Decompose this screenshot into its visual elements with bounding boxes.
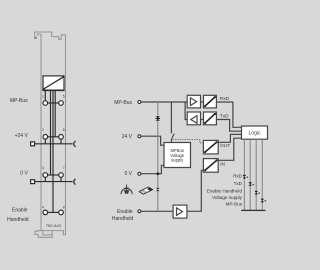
- Logic box: [242, 126, 268, 139]
- wire OUT to Logic: [218, 134, 241, 142]
- terminal 5: [59, 101, 64, 106]
- data contact symbol TxD: [248, 182, 254, 186]
- bus bar MP-Bus: [259, 209, 265, 211]
- handheld socket symbol: [121, 185, 133, 194]
- svg-text:MP-Bus: MP-Bus: [114, 100, 132, 106]
- svg-text:0 V: 0 V: [124, 171, 132, 177]
- 24V wire: [141, 136, 164, 145]
- svg-text:supply: supply: [171, 158, 184, 163]
- opto-isolator RxD: [204, 95, 217, 108]
- internal bus wire a: [50, 90, 52, 175]
- internal bus wire c: [54, 90, 56, 137]
- svg-text:Handheld: Handheld: [112, 216, 134, 222]
- terminal 6 stub: [60, 139, 62, 144]
- zener branch wire upper: [157, 102, 159, 116]
- svg-text:Enable Handheld: Enable Handheld: [207, 188, 243, 193]
- module bottom notch: [43, 231, 52, 235]
- relay contact K1: [171, 134, 174, 140]
- svg-text:MP-Bus: MP-Bus: [10, 98, 28, 104]
- wire IN to Logic: [218, 138, 241, 160]
- svg-text:Voltage supply: Voltage supply: [212, 195, 243, 200]
- bus bar Enable/Voltage: [253, 209, 259, 211]
- Enable wire: [141, 210, 173, 212]
- opto-isolator OUT: [203, 140, 218, 154]
- +24V clamp arc: [74, 141, 76, 147]
- relay branch wire: [170, 102, 172, 133]
- terminal 3 stub: [44, 177, 46, 181]
- 0V clamp arc: [74, 179, 76, 185]
- terminal 1: [43, 101, 48, 106]
- svg-text:1: 1: [42, 95, 44, 99]
- svg-text:TxD: TxD: [220, 114, 229, 120]
- svg-text:4: 4: [42, 206, 44, 210]
- handheld plug wire lower: [157, 192, 159, 211]
- module bottom foot: [35, 231, 52, 238]
- svg-text:8: 8: [63, 206, 65, 210]
- buffer U2 (RxD driver): [187, 95, 200, 108]
- svg-text:Enable: Enable: [117, 209, 133, 215]
- suppressor diode Z1: [156, 116, 161, 121]
- svg-text:RxD: RxD: [233, 174, 243, 179]
- wire opto RxD to Logic: [216, 102, 241, 127]
- +24V row wire: [35, 143, 73, 145]
- module top profile: [35, 32, 66, 39]
- electronics box diagonal: [44, 77, 64, 89]
- handheld plug data contact: [156, 188, 159, 192]
- module latch foot: [34, 37, 37, 39]
- module bottom profile: [41, 231, 66, 235]
- svg-text:Logic: Logic: [249, 131, 261, 137]
- feedback wire from RX buffer to MP-Bus: [185, 102, 187, 120]
- svg-text:Enable: Enable: [12, 208, 28, 214]
- row 3 connector wire: [48, 174, 59, 176]
- bus line MP-Bus: [261, 139, 263, 210]
- svg-text:750-643: 750-643: [46, 223, 62, 228]
- terminal 2 stub: [44, 139, 46, 144]
- terminal 4: [43, 210, 48, 215]
- data contact symbol RxD: [243, 175, 249, 179]
- electronics box bottom bar: [43, 89, 65, 91]
- wire buffer to opto RxD: [201, 101, 204, 103]
- svg-text:6: 6: [63, 128, 65, 132]
- terminal 0V: [138, 172, 141, 175]
- electronics box U1: [43, 76, 64, 90]
- opto-isolator IN: [203, 159, 218, 173]
- wire box to terminal 1: [44, 90, 46, 100]
- internal bus wire b: [52, 90, 54, 212]
- terminal MP-Bus: [138, 101, 141, 104]
- bus bar TxD: [247, 209, 253, 211]
- terminal 8: [59, 210, 64, 215]
- svg-text:5: 5: [63, 95, 65, 99]
- 0V wire: [141, 165, 164, 173]
- svg-text:Handheld: Handheld: [7, 217, 29, 223]
- svg-text:OUT: OUT: [220, 143, 230, 149]
- handheld plug wire upper: [157, 174, 159, 187]
- svg-text:TxD: TxD: [234, 181, 243, 186]
- terminal 3: [43, 173, 48, 178]
- row 2 connector wire: [48, 136, 59, 138]
- terminal 7 stub: [60, 177, 62, 181]
- 0V wire-entry square: [31, 180, 35, 184]
- opto-isolator TxD: [204, 112, 217, 125]
- svg-text:RxD: RxD: [220, 96, 230, 102]
- module right rail: [65, 35, 67, 235]
- bus line TxD: [249, 139, 251, 210]
- relay actuation dashed link: [173, 140, 204, 143]
- svg-text:2: 2: [42, 128, 44, 132]
- handheld device icon: [139, 187, 153, 195]
- module latch inner edge: [38, 34, 41, 36]
- wire opto TxD to Logic: [216, 120, 241, 132]
- +24V wire-entry square: [31, 142, 35, 146]
- MP-Bus wire: [141, 101, 187, 103]
- terminal 2: [43, 135, 48, 140]
- bus line RxD: [243, 139, 245, 210]
- MPBus voltage supply box: [164, 143, 191, 168]
- wire enable buffer output riser to IN: [187, 170, 204, 211]
- module left rail: [40, 34, 42, 231]
- row 4 connector wire: [48, 211, 59, 213]
- terminal Enable Handheld: [138, 210, 141, 213]
- buffer U3 (TxD driver): [187, 112, 200, 125]
- svg-text:IN: IN: [220, 162, 225, 168]
- svg-text:+24 V: +24 V: [15, 133, 29, 139]
- junction dot 0V/zener: [157, 172, 160, 175]
- svg-text:3: 3: [42, 166, 44, 170]
- terminal 7: [59, 173, 64, 178]
- wire TX buffer to opto TxD: [201, 119, 204, 121]
- zener branch wire lower: [157, 122, 159, 174]
- bus bar RxD: [241, 209, 247, 211]
- svg-text:7: 7: [63, 166, 65, 170]
- svg-text:MP-Bus: MP-Bus: [226, 202, 243, 207]
- bus line Enable/Voltage: [255, 139, 257, 210]
- data contact symbol MP-Bus: [261, 199, 267, 203]
- terminal 6: [59, 135, 64, 140]
- svg-text:24 V: 24 V: [122, 134, 133, 140]
- terminal 24V: [138, 135, 141, 138]
- relay contact to supply box wire: [170, 140, 172, 143]
- row 1 connector wire: [48, 102, 59, 104]
- 0V row wire: [35, 181, 73, 183]
- buffer U4 (enable input): [173, 205, 187, 218]
- data contact symbol Enable/Voltage: [254, 191, 260, 195]
- svg-text:0 V: 0 V: [20, 171, 28, 177]
